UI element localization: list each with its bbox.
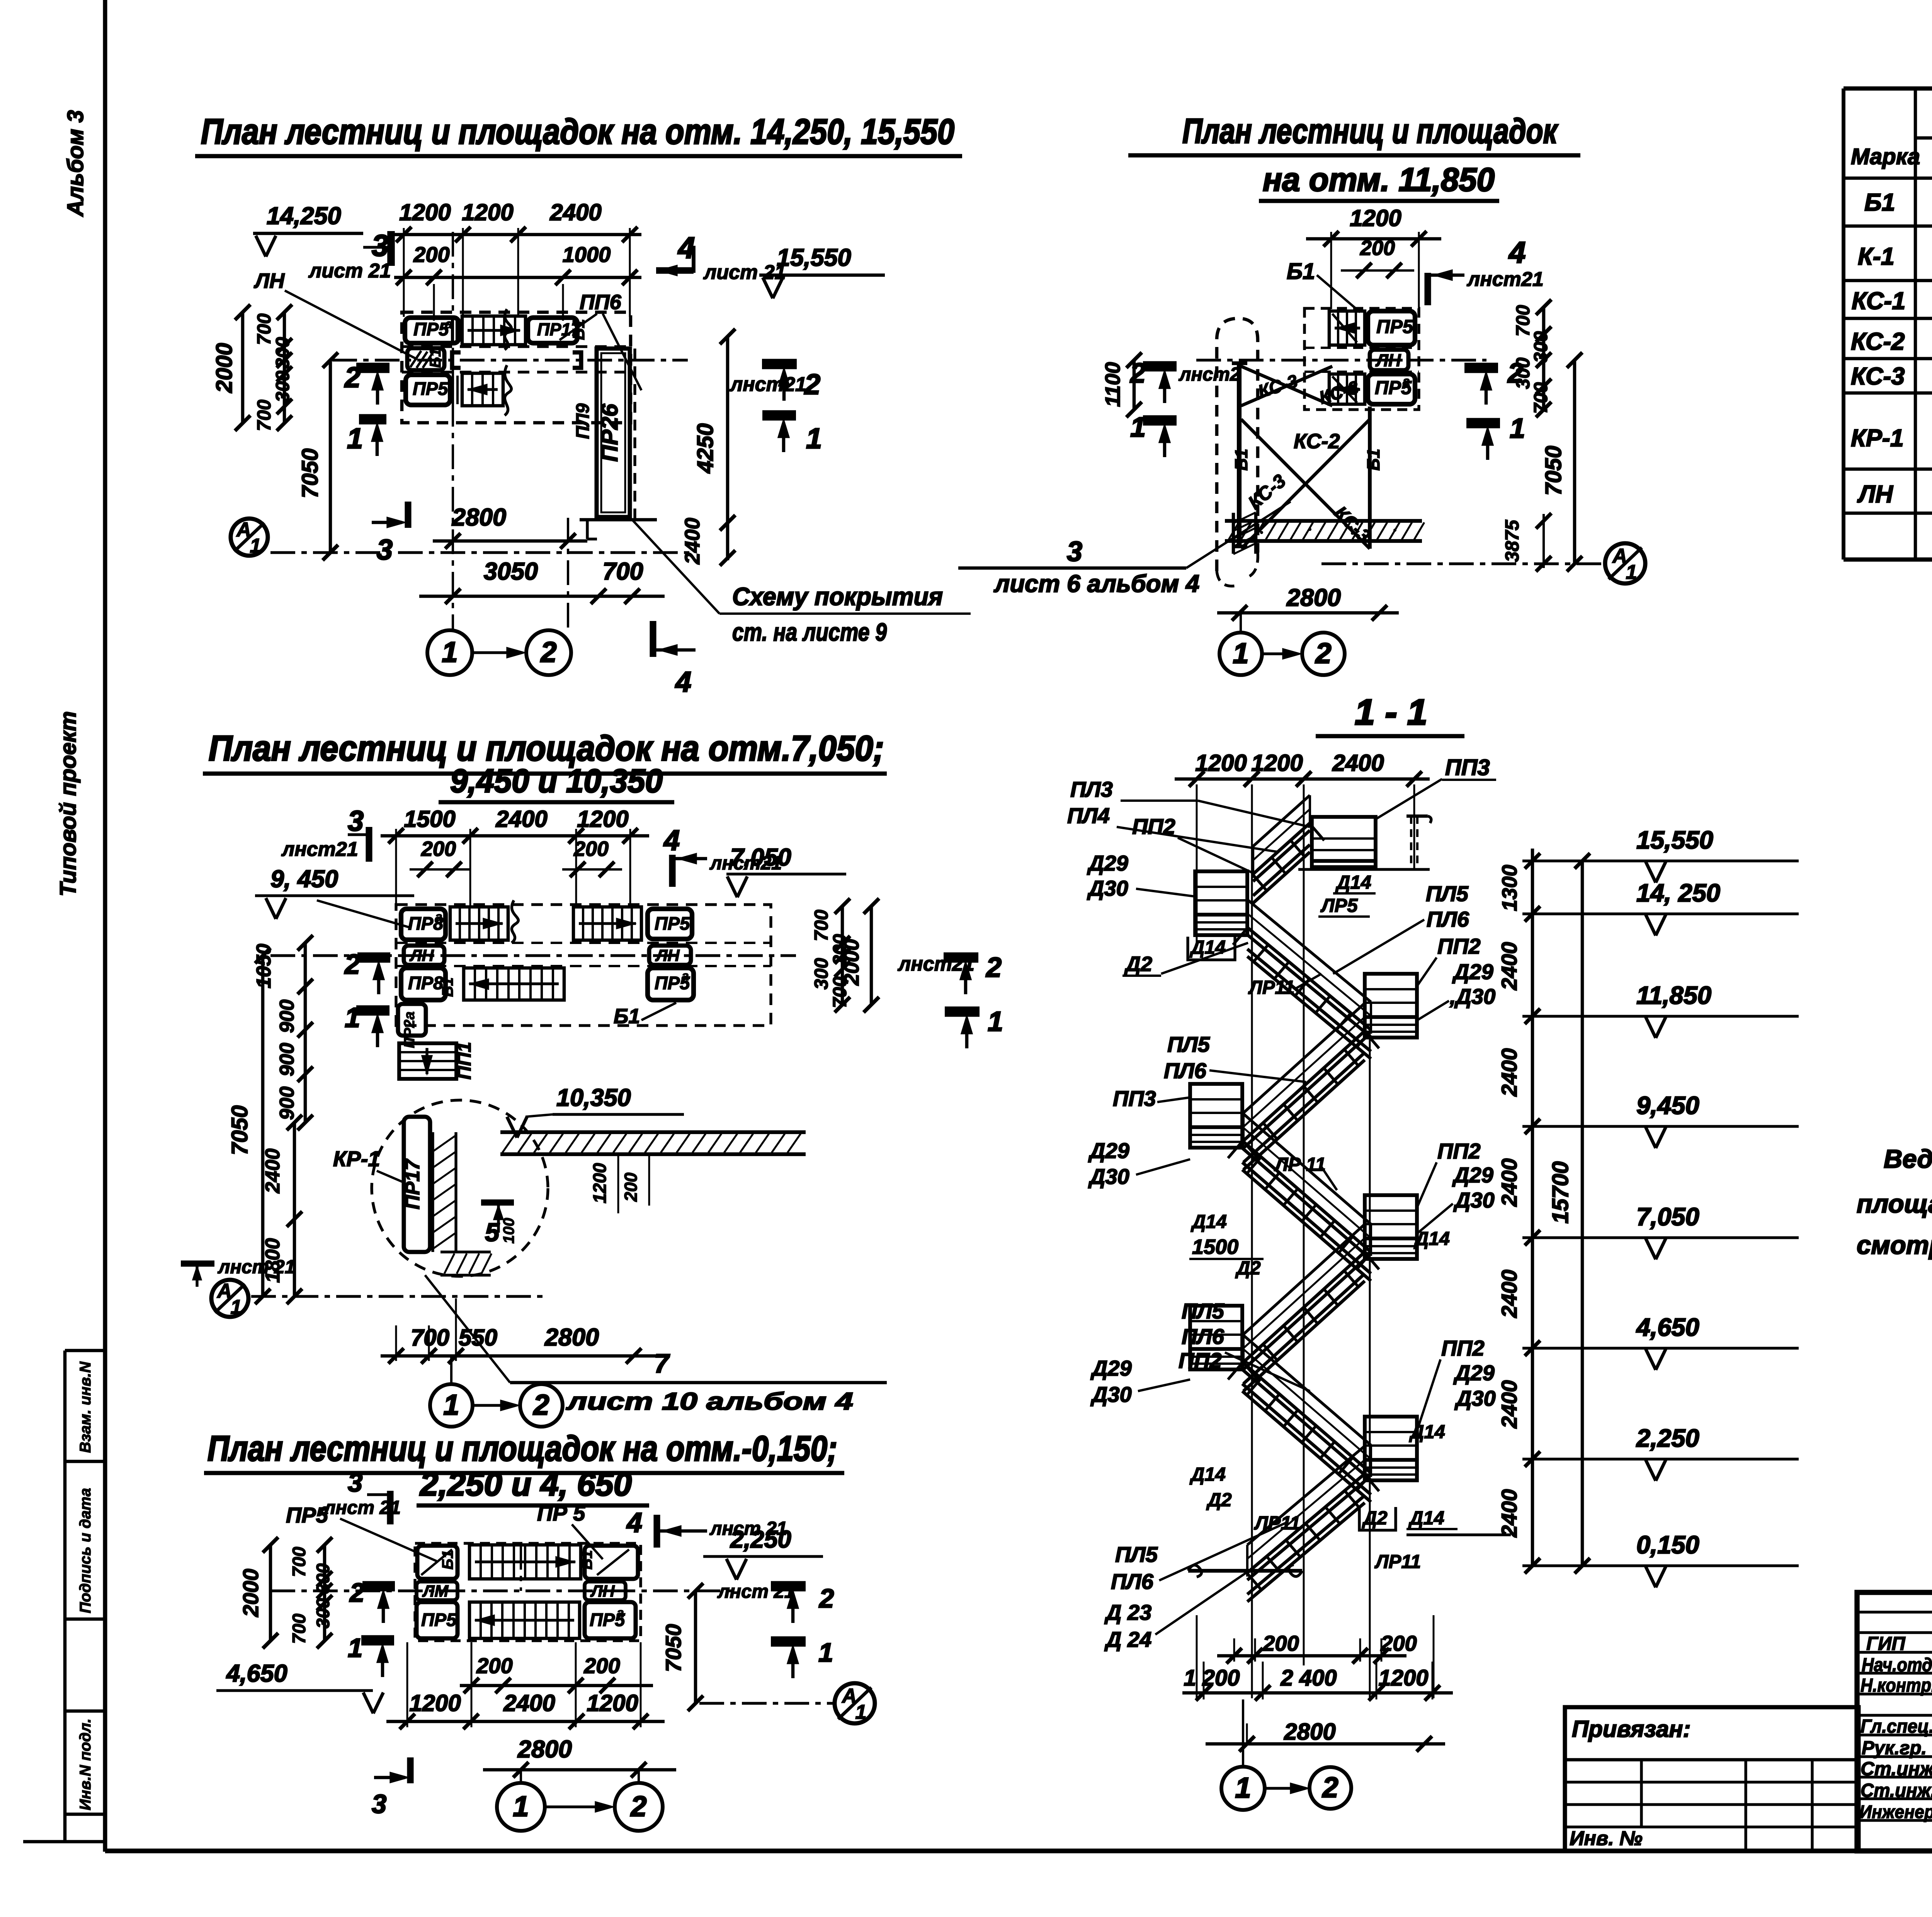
svg-text:700: 700 <box>254 400 275 431</box>
svg-text:КР-1: КР-1 <box>1851 425 1904 452</box>
svg-text:ПР8: ПР8 <box>408 973 444 993</box>
plan1 bracket left on axis <box>452 352 461 368</box>
section landing left 14250 <box>1195 871 1247 935</box>
privyazan grid <box>1565 1758 1859 1762</box>
svg-text:Подпись и дата: Подпись и дата <box>77 1488 94 1613</box>
svg-text:ПП2: ПП2 <box>1132 814 1175 839</box>
svg-text:700: 700 <box>254 313 275 345</box>
svg-text:2: 2 <box>1315 637 1331 669</box>
svg-text:КС-2: КС-2 <box>1851 328 1905 355</box>
plan3 marker 5 <box>481 1199 514 1206</box>
svg-text:7050: 7050 <box>227 1105 252 1155</box>
svg-text:ПР5: ПР5 <box>413 378 448 399</box>
plan1 box PR5 lower <box>406 375 450 405</box>
svg-text:9,450: 9,450 <box>1636 1091 1699 1119</box>
svg-text:Д30: Д30 <box>1087 876 1128 900</box>
svg-text:План лестниц и площадок на отм: План лестниц и площадок на отм.-0,150; <box>207 1429 837 1468</box>
svg-text:4,650: 4,650 <box>226 1660 287 1687</box>
plan4 axis A1 <box>835 1683 875 1723</box>
plan4 extension lines <box>406 1642 408 1727</box>
svg-text:2000: 2000 <box>238 1569 263 1618</box>
svg-text:2400: 2400 <box>262 1148 284 1194</box>
plan3 axis A1 and lnst21 flag <box>181 1260 214 1267</box>
title block personnel grid <box>1857 1611 1932 1613</box>
svg-text:ПП2: ПП2 <box>1441 1336 1485 1360</box>
plan1 dim extension lines 2nd row <box>433 284 435 321</box>
svg-text:1200: 1200 <box>462 199 513 225</box>
plan1 left dim 2000 <box>241 312 245 423</box>
plan2 right dims 700 300 300 700 <box>1542 307 1546 410</box>
svg-text:300: 300 <box>1531 331 1551 363</box>
section landing left 9450 <box>1190 1084 1242 1148</box>
svg-text:1: 1 <box>1235 1772 1251 1804</box>
svg-text:7,050: 7,050 <box>730 844 791 871</box>
svg-text:Д30: Д30 <box>1454 1386 1496 1410</box>
plan1 axis A1 circle <box>231 519 268 556</box>
plan3 wall hatch right of PR17 <box>431 1132 434 1252</box>
svg-text:а: а <box>1403 374 1410 389</box>
svg-text:300: 300 <box>313 1563 333 1594</box>
svg-text:Б1: Б1 <box>570 319 588 340</box>
svg-text:700: 700 <box>602 558 643 585</box>
svg-text:ПП3: ПП3 <box>1113 1086 1156 1111</box>
svg-text:Д2: Д2 <box>1124 953 1152 976</box>
svg-text:2800: 2800 <box>544 1324 599 1351</box>
svg-text:10,350: 10,350 <box>556 1084 631 1111</box>
svg-text:Альбом 3: Альбом 3 <box>63 110 88 217</box>
plan4 top band box left B1 <box>417 1546 457 1579</box>
svg-text:лист 6 альбом 4: лист 6 альбом 4 <box>993 570 1199 597</box>
plan1 title underline <box>195 154 962 158</box>
section dim chain 2400s <box>1531 849 1534 1566</box>
section flight 11850 to 9450 <box>1243 1003 1365 1113</box>
svg-text:лнст21: лнст21 <box>729 373 806 396</box>
svg-text:смотрите: смотрите <box>1857 1231 1932 1260</box>
svg-text:Д2: Д2 <box>1362 1508 1388 1529</box>
plan3 axis circles <box>430 1384 473 1427</box>
svg-text:КС-3: КС-3 <box>1851 363 1905 390</box>
svg-text:7050: 7050 <box>661 1624 685 1672</box>
sheet frame bottom border <box>23 1840 105 1844</box>
svg-text:1: 1 <box>348 1633 362 1663</box>
svg-text:900: 900 <box>276 1000 298 1033</box>
svg-text:Б1: Б1 <box>1364 449 1383 471</box>
svg-text:ПЛ6: ПЛ6 <box>1182 1324 1225 1349</box>
svg-text:Б1: Б1 <box>578 1550 595 1570</box>
svg-text:14, 250: 14, 250 <box>1636 879 1720 907</box>
svg-text:15,550: 15,550 <box>1636 826 1713 854</box>
svg-text:План лестниц и площадок на отм: План лестниц и площадок на отм. 14,250, … <box>201 112 954 151</box>
plan2 axis A1 circle <box>1605 543 1645 583</box>
plan3 left vertical strip boxes <box>398 1004 426 1036</box>
svg-text:700: 700 <box>811 910 832 941</box>
svg-text:3: 3 <box>348 1468 362 1497</box>
svg-text:1: 1 <box>1510 413 1525 444</box>
svg-text:900: 900 <box>276 1043 298 1077</box>
section flight 15550 to 14250 <box>1253 795 1310 846</box>
plan4 marker 1 right <box>771 1636 806 1647</box>
svg-text:300: 300 <box>272 371 293 402</box>
plan4 top stair hatch <box>469 1545 581 1579</box>
svg-text:Д14: Д14 <box>1190 1211 1227 1232</box>
table grid vertical lines <box>1842 88 1845 560</box>
svg-text:200: 200 <box>476 1653 512 1678</box>
sheet frame left border <box>103 0 107 1852</box>
svg-text:Ведомость: Ведомость <box>1884 1145 1932 1174</box>
svg-text:Привязан:: Привязан: <box>1572 1716 1690 1742</box>
plan3 floor band 10350 hatched <box>500 1130 806 1134</box>
svg-text:Взам. инв.N: Взам. инв.N <box>77 1361 94 1453</box>
plan3 right dims 700 300 300 700 2000 <box>841 906 844 1005</box>
svg-text:2400: 2400 <box>1497 942 1521 991</box>
plan4 top band box right B1 <box>585 1546 638 1579</box>
svg-text:лнст 21: лнст 21 <box>218 1257 295 1277</box>
svg-text:2,250: 2,250 <box>1636 1424 1699 1452</box>
svg-text:лнст2: лнст2 <box>1179 364 1240 385</box>
svg-text:К-1: К-1 <box>1858 243 1895 270</box>
svg-text:ЛР 11: ЛР 11 <box>1274 1154 1326 1175</box>
section landing right 7050 <box>1365 1195 1417 1259</box>
svg-text:Инженер: Инженер <box>1859 1801 1932 1822</box>
svg-text:2400: 2400 <box>1497 1380 1521 1429</box>
svg-text:2400: 2400 <box>549 199 601 225</box>
svg-text:300: 300 <box>272 337 293 369</box>
svg-text:а: а <box>435 910 442 924</box>
svg-text:ПП2: ПП2 <box>1437 1139 1481 1163</box>
svg-text:Инв. №: Инв. № <box>1570 1827 1643 1850</box>
svg-text:550: 550 <box>459 1325 497 1351</box>
svg-text:Б1: Б1 <box>1287 259 1315 284</box>
svg-text:ПЛ5: ПЛ5 <box>1115 1542 1158 1567</box>
svg-text:2400: 2400 <box>1497 1158 1521 1207</box>
svg-text:Д29: Д29 <box>1452 959 1493 984</box>
svg-text:14,250: 14,250 <box>267 202 341 230</box>
svg-text:2800: 2800 <box>1284 1719 1335 1745</box>
plan4 left dims <box>269 1545 272 1641</box>
plan2 box LN <box>1370 350 1408 370</box>
plan3 left dim 1050 <box>304 943 307 1123</box>
svg-text:2800: 2800 <box>517 1736 572 1763</box>
svg-text:Б1: Б1 <box>439 977 456 997</box>
plan1 right dim 4250 <box>726 336 730 560</box>
svg-text:1: 1 <box>442 636 457 668</box>
plan4 LM LN boxes <box>417 1582 457 1600</box>
svg-text:План лестниц и площадок: План лестниц и площадок <box>1182 112 1558 151</box>
svg-text:Д30: Д30 <box>1453 1188 1495 1212</box>
svg-text:4,650: 4,650 <box>1636 1313 1699 1341</box>
svg-text:ПЛ9: ПЛ9 <box>572 403 593 439</box>
plan3 left dim 7050 <box>261 956 265 1296</box>
svg-text:Гл.спец.: Гл.спец. <box>1861 1716 1932 1737</box>
svg-text:КР-1: КР-1 <box>333 1146 380 1171</box>
svg-text:900: 900 <box>276 1087 298 1120</box>
svg-text:Д14: Д14 <box>1189 937 1226 958</box>
svg-text:,Д30: ,Д30 <box>1449 984 1495 1009</box>
svg-text:700: 700 <box>289 1547 309 1577</box>
svg-text:3: 3 <box>377 534 393 566</box>
svg-text:Ст.инж: Ст.инж <box>1861 1759 1932 1779</box>
svg-text:1: 1 <box>855 1701 867 1723</box>
svg-text:2400: 2400 <box>1497 1489 1521 1538</box>
svg-text:300: 300 <box>811 958 832 990</box>
plan1 leader skhemu pokrytiya <box>632 520 719 614</box>
plan1 axis dashdot horizontal <box>332 359 688 361</box>
section landing right 2250 <box>1365 1417 1417 1480</box>
svg-text:200: 200 <box>413 242 449 267</box>
svg-text:План лестниц и площадок на отм: План лестниц и площадок на отм.7,050; <box>209 729 884 768</box>
svg-text:лист 21: лист 21 <box>308 260 391 282</box>
svg-text:1300: 1300 <box>1498 865 1521 911</box>
svg-text:А: А <box>1612 545 1627 567</box>
plan3 axis dashdot horizontal <box>270 954 796 957</box>
svg-text:15,550: 15,550 <box>777 244 851 271</box>
svg-text:Д29: Д29 <box>1088 1138 1129 1163</box>
svg-text:Д29: Д29 <box>1087 851 1128 875</box>
section ground line at 0150 <box>1188 1565 1202 1577</box>
plan1 axis circles 1 2 <box>427 630 472 675</box>
plan4 axis dashdot horizontal <box>270 1589 734 1592</box>
svg-text:11,850: 11,850 <box>1636 981 1711 1009</box>
svg-text:7,050: 7,050 <box>1636 1203 1699 1231</box>
plan1 box LN hatched <box>407 348 444 370</box>
svg-text:1: 1 <box>347 422 363 454</box>
svg-text:1200: 1200 <box>589 1163 610 1204</box>
svg-text:7: 7 <box>654 1349 670 1378</box>
svg-text:Б1: Б1 <box>439 1550 456 1570</box>
plan2 axis dashdot horizontal <box>1196 359 1486 361</box>
svg-text:3: 3 <box>372 228 388 262</box>
svg-text:2,250 и 4, 650: 2,250 и 4, 650 <box>419 1466 632 1503</box>
svg-text:200: 200 <box>583 1653 620 1678</box>
plan2 lower axis dashdot <box>1321 562 1604 565</box>
svg-text:2400: 2400 <box>1332 750 1384 776</box>
svg-text:2: 2 <box>532 1389 549 1421</box>
svg-text:Нач.отд.: Нач.отд. <box>1862 1655 1932 1675</box>
svg-text:4: 4 <box>1508 235 1526 269</box>
section elevation flags and level lines <box>1522 859 1799 862</box>
plan1 axis A1 dashdot line <box>270 551 692 554</box>
svg-text:300: 300 <box>313 1598 333 1628</box>
section dashed post at top platform <box>1410 816 1412 869</box>
svg-text:ЛН: ЛН <box>1857 481 1893 508</box>
svg-text:ПЛ6: ПЛ6 <box>1111 1569 1154 1594</box>
svg-text:Д14: Д14 <box>1409 1422 1445 1442</box>
svg-text:на отм. 11,850: на отм. 11,850 <box>1263 162 1495 198</box>
plan3 box PR5 top <box>648 909 692 939</box>
svg-text:7050: 7050 <box>298 448 323 498</box>
section flight 2250 to 0150 <box>1247 1446 1365 1545</box>
svg-text:2: 2 <box>1321 1771 1338 1803</box>
svg-text:1: 1 <box>1626 561 1637 583</box>
plan3 box PR17 <box>404 1117 430 1252</box>
svg-text:ЛР11: ЛР11 <box>1248 977 1294 998</box>
svg-text:3050: 3050 <box>484 558 538 585</box>
svg-text:ЛР11: ЛР11 <box>1254 1513 1300 1534</box>
plan2 inner dashed row lines <box>1304 347 1419 349</box>
svg-text:ПЛ5: ПЛ5 <box>1182 1299 1225 1323</box>
svg-text:1: 1 <box>443 1389 459 1421</box>
svg-text:Д 23: Д 23 <box>1104 1600 1151 1624</box>
plan3 bottom hatch piece <box>440 1250 491 1253</box>
svg-text:Рук.гр.: Рук.гр. <box>1862 1738 1927 1759</box>
svg-text:а: а <box>321 1501 328 1517</box>
svg-text:1200: 1200 <box>1378 1665 1428 1691</box>
svg-text:4250: 4250 <box>693 423 718 473</box>
plan2 marker 1 right <box>1466 418 1500 429</box>
svg-text:ПП3: ПП3 <box>1445 755 1490 780</box>
plan3 box PR8a <box>401 909 446 940</box>
svg-text:200: 200 <box>621 1172 641 1202</box>
plan3 boxes LN row <box>404 946 444 965</box>
plan1 marker 3 bottom <box>372 521 402 524</box>
plan2 stair hatch top row <box>1329 311 1365 345</box>
svg-text:1200: 1200 <box>577 806 628 832</box>
svg-text:Д14: Д14 <box>1413 1228 1450 1249</box>
svg-text:ПР5: ПР5 <box>1376 316 1413 337</box>
svg-text:Д29: Д29 <box>1090 1356 1132 1380</box>
plan2 floor band hatched <box>1225 519 1422 523</box>
svg-text:Б1: Б1 <box>427 348 444 368</box>
svg-text:4: 4 <box>675 666 691 698</box>
margin cell lines <box>65 1349 105 1352</box>
svg-text:Д30: Д30 <box>1090 1382 1132 1407</box>
svg-text:2: 2 <box>630 1790 646 1822</box>
svg-text:3: 3 <box>348 805 364 837</box>
plan4 dashed outline <box>415 1543 641 1641</box>
svg-text:ПР26: ПР26 <box>597 403 622 462</box>
svg-text:Б1: Б1 <box>1864 189 1895 216</box>
section landing left 4650 <box>1190 1306 1242 1369</box>
plan2 upper X bracing <box>1241 366 1332 406</box>
svg-text:2800: 2800 <box>452 504 506 531</box>
svg-text:Схему покрытия: Схему покрытия <box>732 582 943 611</box>
svg-text:Д29: Д29 <box>1453 1361 1495 1385</box>
plan3 stair hatch vertical down <box>399 1043 456 1079</box>
svg-text:ПР5: ПР5 <box>421 1609 457 1630</box>
section flight 4650 to 2250 <box>1242 1334 1371 1445</box>
plan2 stair hatch lower row <box>1329 374 1365 404</box>
plan4 lower stair hatch <box>469 1602 580 1638</box>
svg-text:15700: 15700 <box>1548 1161 1573 1223</box>
plan4 lower band PR5a box <box>585 1602 636 1638</box>
svg-text:ПЛ5: ПЛ5 <box>1426 881 1469 906</box>
plan1 box PR5a top <box>405 318 459 343</box>
svg-text:ГИП: ГИП <box>1866 1633 1906 1654</box>
plan4 lower band PR5 box <box>417 1602 457 1638</box>
section flight 14250 to 11850 <box>1247 900 1371 1002</box>
plan1 left dim 7050 <box>329 360 332 553</box>
plan3 dashed outline <box>396 905 771 1026</box>
svg-text:Д2: Д2 <box>1235 1258 1261 1279</box>
svg-text:КС-2: КС-2 <box>1294 430 1340 453</box>
plan2 pier hatched <box>1232 513 1235 554</box>
svg-text:лист 10 альбом 4: лист 10 альбом 4 <box>566 1388 853 1415</box>
svg-text:4: 4 <box>663 824 680 856</box>
plan3 box PR8 lower <box>401 968 446 1000</box>
svg-text:А: А <box>216 1280 232 1302</box>
svg-text:лнст21: лнст21 <box>1466 268 1544 291</box>
svg-text:Д14: Д14 <box>1189 1464 1226 1485</box>
svg-text:Д29: Д29 <box>1452 1163 1493 1187</box>
svg-text:Д14: Д14 <box>1408 1508 1444 1529</box>
svg-text:Д 24: Д 24 <box>1104 1627 1151 1652</box>
margin column line <box>63 1351 67 1842</box>
plan1 axis2 dashdot vertical <box>567 518 569 629</box>
table grid horizontal lines <box>1844 87 1932 91</box>
section top platform PP3 at 15550 <box>1312 817 1376 867</box>
svg-text:Д2: Д2 <box>1206 1490 1232 1510</box>
svg-text:Б1: Б1 <box>614 1005 640 1028</box>
svg-text:А: А <box>841 1685 857 1707</box>
section axis circles 1 2 <box>1221 1767 1265 1810</box>
plan1 top dimension line <box>390 233 641 236</box>
svg-text:ПР5: ПР5 <box>413 319 449 339</box>
svg-text:1200: 1200 <box>1350 205 1401 231</box>
svg-text:1 - 1: 1 - 1 <box>1355 692 1427 732</box>
svg-text:2400: 2400 <box>1497 1270 1521 1318</box>
title block outer frame <box>1857 1592 1932 1851</box>
svg-text:ЛН: ЛН <box>253 269 285 293</box>
svg-text:1200: 1200 <box>399 199 451 225</box>
plan1 stair hatch top <box>462 316 526 345</box>
plan4 right dim 7050 <box>694 1591 697 1703</box>
plan3 dashed circle tank wall <box>372 1100 548 1276</box>
svg-text:ПЛ3: ПЛ3 <box>1070 777 1113 801</box>
svg-text:ПП2: ПП2 <box>1437 934 1481 958</box>
svg-text:ПР 5: ПР 5 <box>537 1501 585 1525</box>
plan1 box PR17 <box>528 318 577 343</box>
svg-text:2800: 2800 <box>1286 584 1341 611</box>
section flight 9450 to 7050 <box>1242 1113 1371 1224</box>
svg-text:а: а <box>617 1606 624 1620</box>
svg-text:2: 2 <box>818 1584 834 1613</box>
svg-text:Ст.инж.: Ст.инж. <box>1861 1780 1932 1801</box>
section extension verticals <box>1251 784 1253 1698</box>
svg-text:1200: 1200 <box>587 1690 638 1716</box>
svg-text:ПЛ5: ПЛ5 <box>1167 1032 1210 1056</box>
svg-text:3875: 3875 <box>1502 520 1523 562</box>
svg-text:а: а <box>682 969 689 983</box>
svg-text:ПЛ6: ПЛ6 <box>1164 1058 1207 1083</box>
svg-text:3: 3 <box>372 1789 386 1819</box>
svg-text:ПР5: ПР5 <box>655 913 690 934</box>
privyazan table frame <box>1565 1707 1859 1851</box>
svg-text:ЛР5: ЛР5 <box>1320 895 1358 916</box>
svg-text:2400: 2400 <box>1497 1048 1521 1097</box>
plan1 marker 1 right <box>762 410 796 421</box>
plan3 stair hatch top A <box>450 907 508 940</box>
svg-text:700: 700 <box>1531 382 1551 414</box>
svg-text:2: 2 <box>349 1578 364 1607</box>
svg-text:ПЛ6: ПЛ6 <box>1427 907 1469 931</box>
plan1 stair hatch lower <box>462 373 503 406</box>
svg-text:ПР17: ПР17 <box>401 1158 424 1209</box>
svg-text:200: 200 <box>421 837 456 861</box>
plan3 bottom extension lines <box>395 1325 397 1361</box>
plan2 box PR5 <box>1368 311 1415 345</box>
svg-text:1000: 1000 <box>563 242 611 267</box>
plan2 column B1 line <box>1237 362 1242 547</box>
svg-text:2400: 2400 <box>681 518 704 565</box>
svg-text:2 400: 2 400 <box>1280 1665 1337 1691</box>
svg-text:1: 1 <box>818 1638 833 1667</box>
svg-text:0,150: 0,150 <box>1636 1531 1699 1559</box>
svg-text:лнст21: лнст21 <box>281 838 358 861</box>
plan2 axis circles <box>1219 633 1262 675</box>
plan3 marker 1 right <box>945 1007 980 1017</box>
plan2 lower X bracing <box>1241 419 1370 549</box>
svg-text:ПЛ4: ПЛ4 <box>1067 803 1110 828</box>
